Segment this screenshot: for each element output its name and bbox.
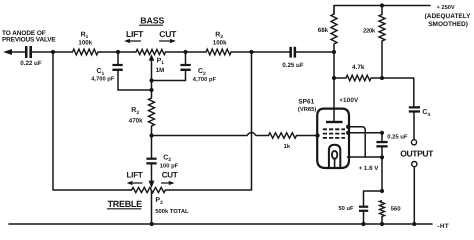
node (C1 rail) <box>149 88 153 92</box>
node A <box>51 50 55 54</box>
svg-text:500k TOTAL: 500k TOTAL <box>155 208 189 215</box>
input terminal arrow <box>3 49 12 55</box>
resistor R2 <box>206 31 231 55</box>
svg-text:68k: 68k <box>318 27 329 34</box>
node (grid connection) <box>315 133 319 137</box>
capacitor C4 <box>409 106 431 139</box>
svg-text:0.22 uF: 0.22 uF <box>20 60 42 67</box>
resistor R1 <box>73 31 99 55</box>
resistor R3 <box>129 98 155 126</box>
svg-text:TREBLE: TREBLE <box>108 199 142 209</box>
node (suppressor, tube right top) <box>346 125 350 129</box>
label LIFT (bass) <box>124 29 144 43</box>
P2 wiper arrow <box>149 165 155 189</box>
wire (vertical to treble right end) <box>165 52 251 190</box>
resistor 560 <box>380 201 402 225</box>
svg-text:4,700 pF: 4,700 pF <box>193 76 217 83</box>
valve SP61 envelope <box>317 109 349 168</box>
anode plate <box>326 121 343 123</box>
svg-text:100k: 100k <box>78 39 92 46</box>
label TREBLE <box>108 199 143 209</box>
wire (lower terminal to rail) <box>413 167 415 224</box>
potentiometer P2 <box>132 187 189 214</box>
potentiometer P1 <box>136 49 166 73</box>
svg-text:0.25 uF: 0.25 uF <box>387 133 408 140</box>
wire (grid line with hop) <box>152 133 318 136</box>
svg-text:(ADEQUATELY: (ADEQUATELY <box>425 13 472 20</box>
resistor 220k <box>363 6 385 79</box>
svg-text:(VR65): (VR65) <box>298 106 316 113</box>
wire <box>151 126 153 158</box>
svg-text:BASS: BASS <box>140 15 164 25</box>
wire (cap to cathode node) <box>381 148 383 192</box>
P1 wiper <box>149 54 155 81</box>
node (cathode network top) <box>380 189 384 193</box>
node (output ground) <box>412 222 416 226</box>
capacitor 50uF <box>338 191 382 224</box>
wire (to C4) <box>382 78 414 106</box>
capacitor C1 <box>91 52 151 90</box>
wire (anode vertical) <box>333 52 335 121</box>
svg-text:1M: 1M <box>156 67 165 74</box>
node (4.7k right / 220k) <box>380 76 384 80</box>
capacitor 0.22uF <box>20 46 42 67</box>
node (anode/68k junction) <box>332 50 336 54</box>
node (4.7k left) <box>332 76 336 80</box>
svg-text:-HT: -HT <box>437 223 449 230</box>
wire <box>166 51 290 53</box>
label input <box>2 30 56 44</box>
wire <box>10 51 25 53</box>
node (50uF ground) <box>361 222 365 226</box>
cathode <box>329 145 340 168</box>
svg-text:4.7k: 4.7k <box>352 64 365 71</box>
svg-text:+ 250V: + 250V <box>437 5 455 11</box>
svg-text:1k: 1k <box>284 143 291 150</box>
node (560 ground) <box>380 222 384 226</box>
svg-text:4,700 pF: 4,700 pF <box>91 76 115 83</box>
svg-text:100 pF: 100 pF <box>160 162 179 169</box>
svg-text:100k: 100k <box>213 40 227 47</box>
wire (wiper to ground rail) <box>151 191 153 224</box>
node (R2/feedback junction) <box>249 50 253 54</box>
node (C1 top) <box>116 50 120 54</box>
svg-text:SMOOTHED): SMOOTHED) <box>428 21 468 28</box>
svg-text:+100V: +100V <box>339 97 359 104</box>
label CUT (bass) <box>159 29 177 43</box>
wire (left vertical down to treble) <box>53 52 132 190</box>
capacitor C2 <box>152 52 217 83</box>
wire <box>296 51 334 53</box>
capacitor 0.25uF (feedback) <box>282 47 304 69</box>
label BASS <box>140 15 165 25</box>
wire (suppressor to cathode line) <box>348 127 365 157</box>
capacitor 0.25uF (screen bypass) <box>376 133 407 147</box>
svg-text:560: 560 <box>391 206 402 213</box>
label +250V <box>425 5 472 28</box>
node (screen junction on 220k line) <box>380 131 384 135</box>
node (cathode junction) <box>380 155 384 159</box>
node (screen, tube right mid) <box>346 131 350 135</box>
svg-text:OUTPUT: OUTPUT <box>400 148 434 158</box>
svg-text:+ 1.6 V: + 1.6 V <box>359 165 380 172</box>
grid (dash rows) <box>323 129 345 138</box>
svg-text:LIFT: LIFT <box>127 171 143 180</box>
resistor 68k <box>318 14 337 52</box>
top HT rail <box>334 6 430 15</box>
svg-text:50 uF: 50 uF <box>338 205 354 212</box>
capacitor C3 <box>146 154 178 169</box>
resistor 4.7k <box>334 64 382 81</box>
resistor 1k <box>269 133 297 150</box>
wire <box>98 51 136 53</box>
svg-text:LIFT: LIFT <box>126 29 144 39</box>
bottom HT rail <box>9 223 432 225</box>
node (P2 wiper ground) <box>150 222 154 226</box>
wire (screen node down to cap) <box>381 133 383 141</box>
label LIFT (treble) <box>127 171 143 186</box>
svg-text:CUT: CUT <box>162 171 178 180</box>
label SP61 (VR65) <box>298 99 316 114</box>
output terminal (lower) <box>412 162 417 167</box>
svg-text:PREVIOUS VALVE: PREVIOUS VALVE <box>2 37 56 44</box>
node (wiper/C2 rail) <box>149 78 153 82</box>
label CUT (treble) <box>162 171 178 186</box>
wire <box>32 51 73 53</box>
node (220k top) <box>380 3 384 7</box>
svg-text:SP61: SP61 <box>298 99 314 106</box>
wire <box>151 81 153 99</box>
output terminal (upper) <box>411 140 416 145</box>
node (C2 top) <box>183 50 187 54</box>
node (grid wire junction) <box>149 133 153 137</box>
svg-text:220k: 220k <box>363 27 376 34</box>
svg-text:470k: 470k <box>129 118 143 125</box>
cathode line <box>348 156 383 158</box>
svg-text:CUT: CUT <box>159 29 177 39</box>
wire (screen to 220k line) <box>348 132 382 134</box>
svg-text:0.25 uF: 0.25 uF <box>282 62 304 69</box>
